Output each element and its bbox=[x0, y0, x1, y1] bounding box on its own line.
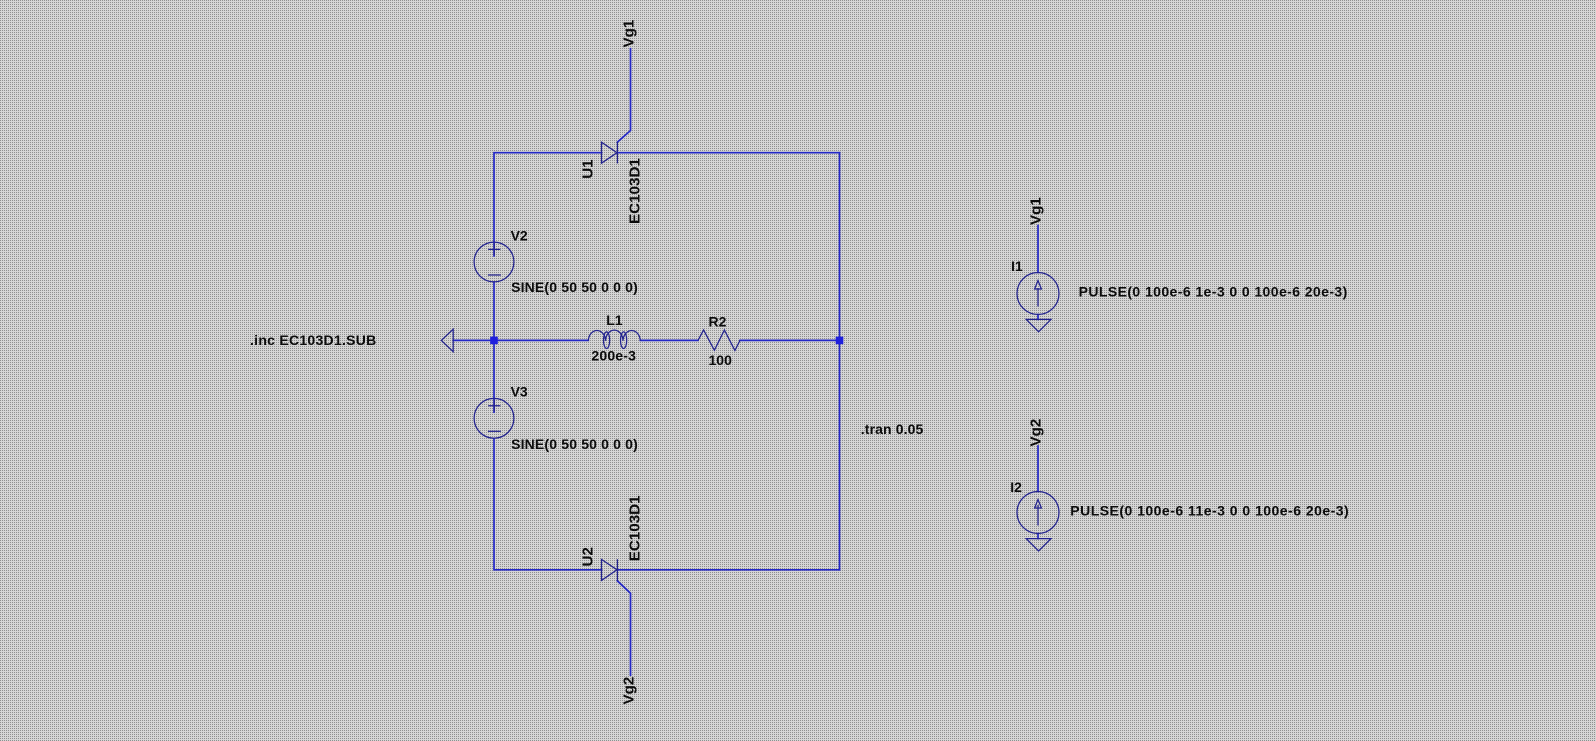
wire arrow to L1 bbox=[453, 339, 588, 341]
wire U2 gate bbox=[617, 581, 630, 675]
ground below I1 bbox=[1026, 319, 1051, 331]
svg-text:R2: R2 bbox=[709, 313, 727, 329]
wire U1 gate bbox=[617, 49, 630, 143]
wire top-right rail bbox=[617, 152, 839, 154]
wire V2 to node A bbox=[493, 282, 495, 340]
svg-text:.tran 0.05: .tran 0.05 bbox=[861, 421, 924, 437]
svg-text:I2: I2 bbox=[1010, 479, 1022, 495]
wire bottom-left rail bbox=[494, 439, 602, 570]
current source I2 bbox=[1017, 492, 1059, 534]
svg-text:V2: V2 bbox=[511, 227, 528, 243]
wire Vg2 to I2 bbox=[1037, 446, 1039, 492]
svg-text:Vg2: Vg2 bbox=[1028, 419, 1045, 447]
svg-text:I1: I1 bbox=[1011, 258, 1023, 274]
wire V3 top lead bbox=[493, 399, 495, 413]
svg-text:V3: V3 bbox=[511, 384, 528, 400]
svg-text:Vg1: Vg1 bbox=[621, 19, 638, 47]
svg-text:SINE(0 50 50 0 0 0): SINE(0 50 50 0 0 0) bbox=[511, 279, 638, 295]
svg-text:SINE(0 50 50 0 0 0): SINE(0 50 50 0 0 0) bbox=[511, 436, 638, 452]
wire node A to V3 bbox=[493, 340, 495, 398]
wire V2 top lead bbox=[493, 242, 495, 256]
resistor R2 bbox=[698, 330, 740, 351]
svg-text:L1: L1 bbox=[606, 312, 623, 328]
svg-text:PULSE(0 100e-6 11e-3 0 0 100e-: PULSE(0 100e-6 11e-3 0 0 100e-6 20e-3) bbox=[1070, 503, 1348, 519]
svg-text:PULSE(0 100e-6 1e-3 0 0 100e-6: PULSE(0 100e-6 1e-3 0 0 100e-6 20e-3) bbox=[1079, 284, 1348, 300]
svg-text:.inc EC103D1.SUB: .inc EC103D1.SUB bbox=[250, 332, 376, 348]
svg-text:EC103D1: EC103D1 bbox=[627, 495, 644, 561]
svg-text:EC103D1: EC103D1 bbox=[627, 158, 644, 224]
svg-text:U2: U2 bbox=[580, 547, 597, 566]
svg-text:Vg2: Vg2 bbox=[621, 677, 638, 705]
net arrow left of node A bbox=[441, 329, 453, 352]
svg-text:Vg1: Vg1 bbox=[1028, 197, 1045, 225]
current source I1 bbox=[1017, 273, 1059, 315]
wire I1 to ground bbox=[1037, 315, 1039, 320]
voltage source V2 bbox=[474, 242, 514, 282]
wire I2 to ground bbox=[1037, 534, 1039, 539]
ground below I2 bbox=[1026, 539, 1051, 551]
svg-text:200e-3: 200e-3 bbox=[591, 347, 636, 363]
inductor L1 bbox=[588, 330, 640, 348]
node B junction bbox=[836, 337, 844, 345]
wire R2 to node B bbox=[740, 339, 840, 341]
wire bottom-right rail bbox=[617, 569, 839, 571]
wire Vg1 to I1 bbox=[1037, 226, 1039, 273]
thyristor U1 bbox=[602, 142, 618, 164]
voltage source V3 bbox=[474, 398, 514, 438]
thyristor U2 bbox=[602, 559, 618, 581]
wire L1 to R2 bbox=[640, 339, 698, 341]
node A junction bbox=[490, 337, 498, 345]
wire right rail bbox=[839, 153, 841, 570]
wire top-left rail bbox=[494, 153, 602, 242]
svg-text:100: 100 bbox=[709, 352, 733, 368]
svg-text:U1: U1 bbox=[580, 159, 597, 179]
